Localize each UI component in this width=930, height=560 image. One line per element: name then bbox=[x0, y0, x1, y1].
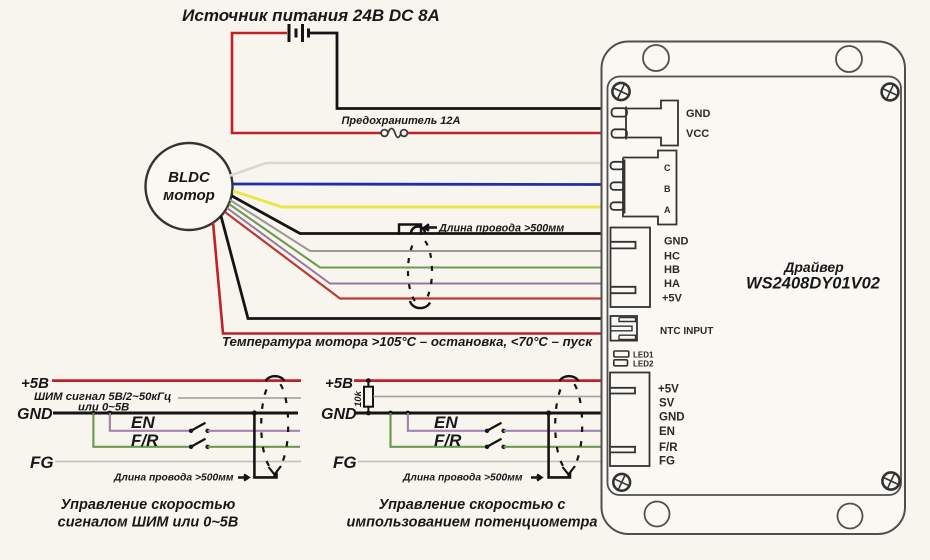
label: wire length arrow bbox=[425, 224, 438, 230]
svg-text:Длина провода >500мм: Длина провода >500мм bbox=[402, 473, 523, 484]
svg-text:WS2408DY01V02: WS2408DY01V02 bbox=[746, 275, 880, 293]
wire: PWM gray left bbox=[178, 397, 301, 399]
svg-text:BLDC: BLDC bbox=[168, 169, 211, 186]
svg-text:F/R: F/R bbox=[434, 431, 462, 450]
wire: hall GND black bbox=[232, 196, 601, 234]
wire: GND black mid bbox=[354, 412, 601, 415]
svg-text:A: A bbox=[664, 205, 671, 215]
wire: violet EN drop mid bbox=[408, 413, 485, 431]
connector J5 control 6-pin bbox=[610, 373, 650, 467]
battery BT1 bbox=[289, 24, 309, 42]
svg-text:F/R: F/R bbox=[131, 431, 159, 450]
node: GND-resistor junction bbox=[366, 411, 371, 416]
driver PCB outline bbox=[608, 77, 902, 496]
svg-text:C: C bbox=[664, 163, 671, 173]
screw bottom-left bbox=[613, 474, 630, 491]
wire: F/R after switch mid bbox=[504, 446, 601, 448]
wire: violet EN drop left bbox=[110, 413, 189, 431]
svg-text:Источник питания 24В DC 8А: Источник питания 24В DC 8А bbox=[182, 6, 440, 25]
connector J3 hall 5-pin bbox=[611, 228, 651, 308]
resistor R1 10k potentiometer bbox=[367, 381, 369, 387]
svg-text:+5В: +5В bbox=[21, 375, 49, 392]
screw top-left bbox=[612, 83, 629, 100]
mounting hole top-left bbox=[643, 45, 669, 71]
node: GND-green junction bbox=[91, 411, 96, 416]
svg-text:EN: EN bbox=[659, 426, 675, 438]
LED1 bbox=[614, 351, 629, 357]
svg-text:Драйвер: Драйвер bbox=[783, 259, 844, 275]
wire: battery + red to VCC bbox=[232, 33, 381, 133]
wire: GND black left bbox=[53, 412, 298, 415]
svg-text:Длина провода >500мм: Длина провода >500мм bbox=[438, 223, 564, 235]
connector J4 NTC bbox=[611, 316, 638, 341]
switch S2 F/R left bbox=[189, 439, 210, 449]
wire length marker left block bbox=[254, 413, 276, 477]
connector J1 power 2-pin bbox=[612, 101, 679, 146]
screw bottom-right bbox=[882, 472, 899, 489]
svg-text:NTC INPUT: NTC INPUT bbox=[660, 326, 713, 337]
svg-text:HA: HA bbox=[664, 278, 680, 290]
svg-text:VCC: VCC bbox=[686, 128, 709, 140]
wire: green F/R drop mid bbox=[391, 413, 486, 447]
node: GND-green junction mid bbox=[388, 411, 393, 416]
wire: phase A yellow bbox=[233, 191, 601, 207]
svg-text:F/R: F/R bbox=[659, 442, 678, 454]
node: GND-violet junction bbox=[108, 411, 113, 416]
svg-text:SV: SV bbox=[659, 398, 675, 410]
wire: FG gray left bbox=[55, 461, 301, 463]
wire: NTC black bbox=[221, 216, 601, 319]
fuse F1 bbox=[381, 129, 407, 138]
wire: hall HA violet bbox=[227, 208, 601, 284]
svg-text:EN: EN bbox=[434, 413, 458, 432]
wire: NTC red bbox=[213, 222, 601, 334]
svg-text:B: B bbox=[664, 184, 671, 194]
motor M1 circle bbox=[146, 143, 233, 230]
wire: EN after switch left bbox=[208, 430, 300, 432]
wire: green F/R drop left bbox=[93, 413, 189, 447]
wire: hall +5V red bbox=[225, 212, 601, 299]
svg-text:HC: HC bbox=[664, 251, 680, 263]
svg-text:Управление скоростью с: Управление скоростью с bbox=[379, 497, 566, 513]
cable loop ellipse on hall bundle bbox=[408, 241, 432, 308]
svg-text:LED1: LED1 bbox=[633, 351, 654, 360]
mounting hole top-right bbox=[836, 46, 862, 72]
svg-text:Длина провода >500мм: Длина провода >500мм bbox=[113, 473, 234, 484]
svg-text:LED2: LED2 bbox=[633, 360, 654, 369]
svg-text:GND: GND bbox=[686, 108, 711, 120]
mounting hole bottom-right bbox=[838, 504, 863, 529]
svg-text:FG: FG bbox=[30, 453, 54, 472]
wire: F/R after switch left bbox=[208, 446, 300, 448]
wire: SV gray mid bbox=[374, 396, 602, 398]
svg-text:сигналом ШИМ или 0~5В: сигналом ШИМ или 0~5В bbox=[58, 515, 239, 531]
wire: EN after switch mid bbox=[504, 430, 601, 432]
svg-text:GND: GND bbox=[659, 412, 685, 424]
svg-text:+5V: +5V bbox=[662, 293, 683, 305]
svg-text:GND: GND bbox=[321, 406, 357, 423]
svg-text:FG: FG bbox=[333, 453, 357, 472]
wire: phase C light gray bbox=[229, 163, 601, 176]
wire: phase B blue bbox=[233, 183, 601, 186]
cable loop ellipse mid block bbox=[555, 376, 582, 477]
wire length bracket on hall bundle bbox=[399, 225, 425, 236]
wire: hall HC gray bbox=[230, 200, 601, 251]
svg-text:Предохранитель 12А: Предохранитель 12А bbox=[342, 115, 461, 127]
switch S4 F/R mid bbox=[485, 439, 506, 449]
node: +5V-resistor junction bbox=[366, 378, 371, 383]
wire: hall HB green bbox=[229, 204, 601, 268]
svg-text:+5V: +5V bbox=[658, 384, 679, 396]
wire: +5V red mid bbox=[354, 379, 601, 382]
screw top-right bbox=[882, 84, 899, 101]
svg-text:10k: 10k bbox=[353, 390, 364, 407]
svg-text:FG: FG bbox=[659, 456, 675, 468]
svg-text:Управление скоростью: Управление скоростью bbox=[61, 497, 236, 513]
LED2 bbox=[614, 360, 628, 366]
cable loop ellipse left block bbox=[261, 376, 288, 477]
wire length marker mid block bbox=[549, 413, 570, 477]
wire: +5V red left bbox=[52, 379, 301, 382]
svg-text:импользованием потенциометра: импользованием потенциометра bbox=[347, 515, 598, 531]
switch S3 EN mid bbox=[485, 423, 506, 433]
mounting hole bottom-left bbox=[645, 502, 670, 527]
driver case outline bbox=[602, 42, 906, 535]
svg-text:Температура мотора >105°С – ос: Температура мотора >105°С – остановка, <… bbox=[222, 334, 593, 349]
svg-text:мотор: мотор bbox=[163, 187, 215, 204]
switch S1 EN left bbox=[189, 423, 210, 433]
wire: red after fuse to driver VCC bbox=[408, 132, 601, 135]
svg-text:GND: GND bbox=[664, 236, 689, 248]
wire: battery - black to GND bbox=[309, 33, 602, 109]
connector J2 phases 3-pin bbox=[611, 151, 677, 225]
svg-text:+5В: +5В bbox=[325, 375, 353, 392]
svg-text:EN: EN bbox=[131, 413, 155, 432]
svg-text:GND: GND bbox=[17, 406, 53, 423]
node: GND-violet junction mid bbox=[406, 411, 411, 416]
svg-text:HB: HB bbox=[664, 264, 680, 276]
wire: FG gray mid bbox=[358, 461, 601, 463]
